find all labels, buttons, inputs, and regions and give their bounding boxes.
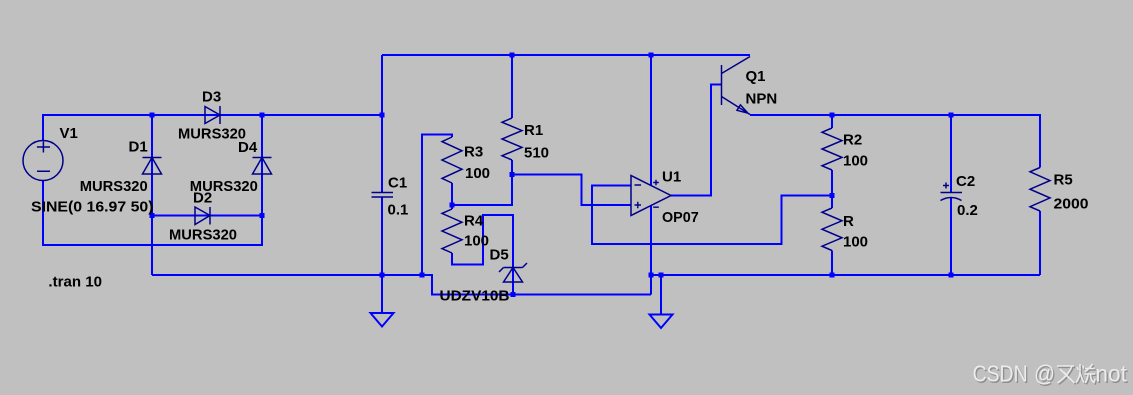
junction node bridge top left xyxy=(150,113,155,118)
wire R top lead xyxy=(831,196,833,209)
svg-text:OP07: OP07 xyxy=(662,209,699,226)
junction node D5 anode xyxy=(511,292,516,297)
wire R1 bottom lead to node xyxy=(511,160,513,175)
wire V1 top to bridge top rail xyxy=(43,115,382,141)
wire op-amp feedback to R2/R node xyxy=(592,186,832,245)
svg-text:D1: D1 xyxy=(129,139,148,156)
voltage source V1 xyxy=(23,141,63,181)
resistor R1 xyxy=(502,118,522,160)
svg-text:R2: R2 xyxy=(843,132,862,149)
op-amp input and power marks xyxy=(635,180,659,209)
junction node R3/R4 xyxy=(450,203,455,208)
junction node bridge bottom left xyxy=(150,213,155,218)
junction node R1 bottom xyxy=(510,172,515,177)
resistor R xyxy=(822,208,842,251)
wire D4 column xyxy=(261,115,263,216)
svg-text:UDZV10B: UDZV10B xyxy=(440,287,510,304)
capacitor C2 xyxy=(941,183,963,201)
wire ground stub at C1 xyxy=(381,275,383,313)
wire op-amp V- to ground rail xyxy=(650,206,652,295)
wire R bottom lead xyxy=(831,251,833,276)
svg-text:0.2: 0.2 xyxy=(957,202,978,219)
wire R4 bottom to zener D5 xyxy=(452,215,513,295)
ground symbol at op-amp xyxy=(650,315,673,329)
junction node R3 ground column xyxy=(420,273,425,278)
wire C1 top lead xyxy=(381,55,383,193)
svg-text:R5: R5 xyxy=(1054,172,1073,189)
junction node bridge bottom right xyxy=(260,213,265,218)
ground symbol at C1 xyxy=(371,313,394,327)
svg-text:NPN: NPN xyxy=(746,91,778,108)
wire bottom rail right xyxy=(651,274,1040,276)
svg-text:0.1: 0.1 xyxy=(388,202,409,219)
svg-text:Q1: Q1 xyxy=(746,68,766,85)
wire R3 bottom lead xyxy=(451,183,453,209)
svg-text:not: not xyxy=(1095,361,1127,387)
svg-text:100: 100 xyxy=(843,234,868,251)
resistor R3 xyxy=(442,137,462,183)
svg-text:D3: D3 xyxy=(202,89,221,106)
svg-text:R3: R3 xyxy=(464,144,483,161)
svg-text:100: 100 xyxy=(465,165,490,182)
resistor R4 xyxy=(442,209,462,253)
svg-text:U1: U1 xyxy=(662,169,681,186)
wire ground stub right xyxy=(660,275,662,315)
op-amp U1 triangle xyxy=(631,176,671,216)
junction node bridge top right xyxy=(260,113,265,118)
diode D3 xyxy=(205,106,220,124)
svg-text:100: 100 xyxy=(464,233,489,250)
resistor R2 xyxy=(822,128,842,170)
wire D2 row xyxy=(152,215,262,217)
wire R3/R4 node to R1 node xyxy=(452,175,512,206)
svg-text:C1: C1 xyxy=(388,175,407,192)
wire C2 bottom lead xyxy=(950,198,952,276)
junction node C2 bottom xyxy=(949,273,954,278)
svg-text:MURS320: MURS320 xyxy=(80,178,148,195)
wire op-amp V+ xyxy=(650,55,652,186)
svg-text:MURS320: MURS320 xyxy=(178,126,246,143)
wire top supply rail xyxy=(382,54,750,56)
svg-text:100: 100 xyxy=(843,153,868,170)
svg-text:R4: R4 xyxy=(464,212,484,229)
junction node C1 top xyxy=(380,113,385,118)
wire R3 top bend to ground rail xyxy=(422,135,452,276)
svg-text:R: R xyxy=(843,213,854,230)
junction node op-amp V+ rail xyxy=(649,53,654,58)
svg-text:510: 510 xyxy=(524,145,549,162)
svg-text:D4: D4 xyxy=(238,139,258,156)
capacitor C1 xyxy=(372,193,394,198)
junction node R bottom xyxy=(830,273,835,278)
resistor R5 xyxy=(1030,168,1050,212)
svg-text:C2: C2 xyxy=(956,173,975,190)
svg-text:V1: V1 xyxy=(60,125,78,142)
svg-text:@: @ xyxy=(1034,361,1055,387)
wire C2 top lead xyxy=(950,115,952,193)
junction node R2 top xyxy=(830,113,835,118)
svg-text:SINE(0 16.97 50): SINE(0 16.97 50) xyxy=(31,199,154,216)
svg-text:D2: D2 xyxy=(193,190,212,207)
watermark CSDN xyxy=(973,361,1129,388)
diode D1 xyxy=(143,158,162,175)
wire V1 return loop xyxy=(43,181,262,246)
junction node V- rail xyxy=(649,273,654,278)
zener diode D5 xyxy=(499,263,527,282)
svg-text:D5: D5 xyxy=(490,247,509,264)
wire bottom ground rail left xyxy=(152,275,651,295)
diode D2 xyxy=(195,207,210,225)
junction node C1 bottom xyxy=(380,273,385,278)
wire node to op-amp plus input xyxy=(512,175,631,206)
wire R2 bottom lead xyxy=(831,170,833,196)
wire R5 bottom lead xyxy=(1039,211,1041,275)
wire D1 column through bridge to bottom rail xyxy=(151,115,153,275)
junction node ground stub xyxy=(659,273,664,278)
wire op-amp output to Q1 base xyxy=(671,85,722,196)
svg-text:2000: 2000 xyxy=(1054,196,1089,213)
svg-text:R1: R1 xyxy=(524,122,543,139)
wire R1 top lead xyxy=(511,55,513,118)
svg-text:CSDN: CSDN xyxy=(973,361,1028,387)
junction node R2/R xyxy=(830,193,835,198)
svg-text:.tran 10: .tran 10 xyxy=(48,273,102,290)
svg-text:MURS320: MURS320 xyxy=(169,227,237,244)
transistor Q1 xyxy=(722,57,751,115)
wire C1 bottom lead xyxy=(381,197,383,275)
junction node R1 top rail xyxy=(510,53,515,58)
wire emitter rail to R5 top xyxy=(750,115,1040,168)
wire R2 top lead xyxy=(831,115,833,128)
junction node C2 top xyxy=(949,113,954,118)
diode D4 xyxy=(253,158,272,175)
